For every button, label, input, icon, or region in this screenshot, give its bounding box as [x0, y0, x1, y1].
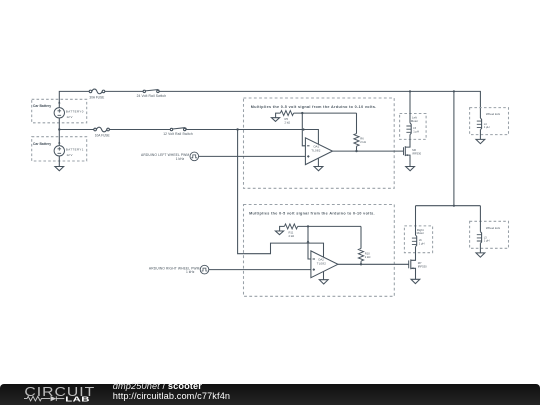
wire battery1 to ground — [58, 156, 60, 167]
wire R5 to feedback node — [294, 112, 357, 114]
battery BATTERY0 source symbol — [54, 108, 64, 118]
junction 12V rail branch — [236, 128, 238, 130]
battery BATTERY1 enclosure Car Battery — [32, 137, 87, 161]
ground M7 — [411, 279, 420, 283]
inductor L3 — [480, 232, 481, 244]
svg-text:R6: R6 — [360, 136, 364, 140]
ground wheel lock 2 — [476, 253, 485, 257]
svg-text:TL082: TL082 — [311, 148, 321, 152]
arrow on battery0 top lead — [58, 101, 60, 104]
wire PWM1 to op-amp1 plus input — [199, 155, 306, 157]
switch SW2 12 Volt Rail Switch — [170, 128, 186, 131]
label R6 2 kOhm — [360, 136, 366, 144]
svg-text:Wheel lock: Wheel lock — [486, 112, 501, 116]
svg-text:IRF530: IRF530 — [418, 265, 427, 269]
svg-text:1 μH: 1 μH — [484, 239, 490, 243]
wire 12V rail fuse to switch — [109, 129, 170, 131]
transistor M6 IRF530 — [404, 146, 422, 166]
transistor M7 IRF530 — [409, 259, 427, 279]
svg-text:Motor: Motor — [411, 119, 418, 123]
wire feedback to R10 — [360, 226, 362, 248]
wire L5 to M6 drain — [405, 135, 410, 148]
wire feedback to R6 — [356, 113, 358, 134]
wire op-amp2 output to M7 gate — [338, 263, 409, 265]
ground battery — [55, 167, 64, 171]
op-amp OA2 TL082 — [311, 251, 338, 278]
CircuitLab logo — [0, 384, 110, 405]
svg-text:1 μH: 1 μH — [419, 241, 425, 245]
svg-text:1 kHz: 1 kHz — [186, 270, 195, 274]
wire PWM2 to op-amp2 plus input — [209, 269, 311, 271]
svg-text:12 Volt Rail Switch: 12 Volt Rail Switch — [163, 132, 193, 136]
wire battery0 bottom to mid node — [58, 118, 60, 130]
ground wheel lock 1 — [476, 139, 485, 143]
wheel lock 1 enclosure — [470, 108, 509, 135]
svg-text:R10: R10 — [365, 251, 370, 255]
svg-text:1 kHz: 1 kHz — [176, 157, 185, 161]
svg-text:12 V: 12 V — [67, 153, 73, 157]
svg-text:M7: M7 — [418, 261, 422, 265]
wheel lock 2 enclosure — [470, 221, 509, 248]
junction on 24V rail at vertical feed — [453, 90, 455, 92]
battery BATTERY0 enclosure Car Battery — [32, 99, 87, 123]
wire feedback node 2 down to inverting input — [308, 226, 311, 259]
svg-text:2 kΩ: 2 kΩ — [289, 234, 295, 238]
svg-text:12 V: 12 V — [67, 115, 73, 119]
inductor L5 — [410, 123, 411, 135]
junction on 24V rail at left motor — [409, 90, 411, 92]
junction lower 24V — [453, 205, 455, 207]
label ARDUINO RIGHT WHEEL PWM 1 kHz — [149, 266, 200, 274]
wire 12V branch to op-amp2 supply — [238, 130, 324, 258]
label BATTERY1 12 V — [66, 147, 84, 157]
svg-text:R11: R11 — [289, 230, 294, 234]
wire 24V rail to L5 — [409, 91, 411, 123]
wire mid node to battery1 — [58, 130, 60, 146]
fuse F2 10A — [94, 127, 110, 132]
resistor R11 — [284, 224, 297, 229]
wire 24V rail fuse to switch — [105, 90, 143, 92]
motor enclosure Left Motor — [400, 114, 427, 140]
svg-text:2 kΩ: 2 kΩ — [360, 140, 366, 144]
svg-text:24 Volt Rail Switch: 24 Volt Rail Switch — [137, 94, 167, 98]
resistor R5 — [280, 111, 293, 116]
wire op-amp2 negative supply — [323, 271, 325, 279]
svg-text:2 kΩ: 2 kΩ — [285, 121, 291, 125]
svg-text:2 kΩ: 2 kΩ — [365, 255, 371, 259]
label R5 2 kOhm — [285, 117, 291, 125]
wire R10 to output 2 — [360, 261, 362, 264]
svg-text:30A FUSE: 30A FUSE — [89, 95, 104, 99]
footer bar — [0, 384, 540, 405]
node feedback 2 — [307, 225, 309, 227]
arrow on op-amp2 minus wire — [307, 240, 310, 243]
wire 24V rail left segment — [59, 91, 89, 107]
wire R6 to output — [356, 146, 358, 151]
amplifier block 2 enclosure — [244, 205, 395, 297]
fuse F1 30A — [89, 89, 105, 94]
svg-text:Multiplies the 0-5 volt signal: Multiplies the 0-5 volt signal from the … — [249, 212, 375, 216]
svg-text:Car Battery: Car Battery — [33, 104, 51, 108]
node feedback 1 — [301, 112, 303, 114]
arrow on battery1 top lead — [58, 141, 60, 144]
amplifier block 1 enclosure — [244, 98, 395, 188]
source VPWM2 ARDUINO RIGHT WHEEL PWM — [200, 265, 209, 274]
ground op-amp2 — [319, 280, 328, 284]
svg-text:Motor: Motor — [417, 231, 424, 235]
svg-text:BATTERY1: BATTERY1 — [66, 147, 84, 151]
wire op-amp1 negative supply — [317, 158, 319, 166]
label L6 1 uH — [419, 238, 425, 245]
wire 24V vertical feed to lower section — [453, 91, 455, 205]
svg-text:10A FUSE: 10A FUSE — [95, 133, 110, 137]
switch SW1 24 Volt Rail Switch — [143, 90, 159, 93]
wire 12V rail left segment — [59, 129, 94, 131]
wire feedback node down to inverting input — [302, 113, 305, 146]
wire R11 to feedback node 2 — [298, 225, 361, 227]
inductor L4 — [480, 118, 481, 130]
inductor L6 — [416, 235, 417, 247]
wire lower 24V distribution — [416, 205, 481, 207]
battery BATTERY1 source symbol — [54, 146, 64, 156]
wire L6 to M7 drain — [411, 247, 416, 261]
svg-text:M6: M6 — [412, 148, 416, 152]
motor enclosure Right Motor — [404, 226, 432, 253]
svg-text:1 μH: 1 μH — [413, 130, 419, 134]
op-amp OA1 TL082 — [305, 138, 332, 165]
arrow on op-amp1 supply wire — [303, 128, 306, 131]
svg-text:Car Battery: Car Battery — [33, 142, 51, 146]
svg-text:BATTERY0: BATTERY0 — [66, 109, 84, 113]
wire op-amp1 output to M6 gate — [333, 150, 404, 152]
label R11 2 kOhm — [289, 230, 295, 238]
svg-text:IRF530: IRF530 — [412, 151, 421, 155]
svg-text:LAB: LAB — [65, 395, 90, 403]
ground reference R11 — [275, 226, 284, 234]
node output 2 — [360, 263, 362, 265]
svg-text:TL082: TL082 — [317, 262, 327, 266]
resistor R6 — [354, 134, 359, 147]
svg-text:Multiplies the 0-5 volt signal: Multiplies the 0-5 volt signal from the … — [251, 105, 377, 109]
wire L4 to ground — [479, 130, 481, 140]
svg-text:R5: R5 — [285, 117, 289, 121]
wire lower 24V to L3 — [479, 206, 481, 232]
wire 24V rail to wheel lock 1 — [159, 91, 480, 118]
resistor R10 — [358, 249, 363, 262]
label BATTERY0 12 V — [66, 109, 84, 119]
source VPWM1 ARDUINO LEFT WHEEL PWM — [190, 152, 199, 161]
label R10 2 kOhm — [365, 251, 371, 259]
footer credit text — [113, 382, 230, 401]
ground op-amp1 — [314, 167, 323, 171]
label ARDUINO LEFT WHEEL PWM 1 kHz — [141, 153, 189, 161]
node output 1 — [355, 150, 357, 152]
ground reference R5 — [271, 113, 280, 121]
wire lower 24V to L6 — [415, 206, 417, 235]
node 12V junction — [58, 128, 60, 130]
wire 12V rail to op-amp supply — [186, 130, 319, 145]
label L5 1 uH — [413, 126, 419, 133]
ground M6 — [406, 167, 415, 171]
svg-text:1 μH: 1 μH — [484, 125, 490, 129]
svg-text:Wheel lock: Wheel lock — [486, 226, 501, 230]
wire L3 to ground — [479, 243, 481, 253]
label L4 1 uH — [484, 122, 490, 129]
label L3 1 uH — [484, 235, 490, 242]
